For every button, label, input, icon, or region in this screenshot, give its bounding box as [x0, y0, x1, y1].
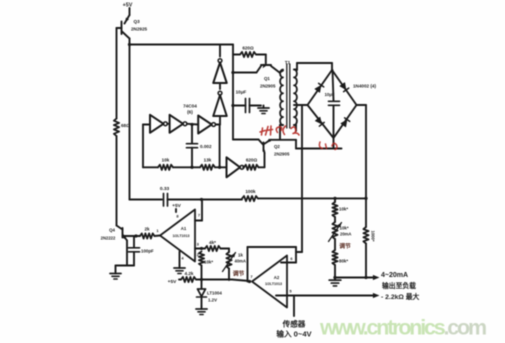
svg-text:2N2222: 2N2222	[101, 236, 116, 241]
ground A1	[174, 266, 185, 274]
label 74C04	[183, 104, 197, 115]
svg-text:2N2925: 2N2925	[131, 27, 148, 32]
label 1N4002	[353, 84, 376, 89]
label tiaojie A1 pot	[233, 270, 245, 278]
wire right rail upper	[365, 105, 367, 227]
svg-text:- 2.2kΩ 最大: - 2.2kΩ 最大	[381, 292, 420, 301]
wire T1 primary bottom	[280, 125, 283, 140]
svg-text:10μF: 10μF	[324, 92, 334, 97]
label Q1 2N2905	[260, 76, 276, 89]
svg-text:+5V: +5V	[123, 3, 133, 9]
svg-text:4: 4	[181, 256, 184, 261]
wire output row	[333, 275, 379, 280]
zener LT1004	[197, 280, 207, 307]
power +5V A1 pin8	[172, 203, 181, 219]
node oscillator cap top	[187, 123, 198, 126]
wire Q2 corner	[295, 140, 297, 149]
node collector Q3	[128, 43, 131, 46]
node Q4 base	[134, 234, 137, 237]
resistor 4k star	[202, 240, 230, 251]
svg-text:5: 5	[289, 289, 292, 294]
svg-text:1k: 1k	[238, 253, 243, 258]
label pin1	[156, 228, 159, 233]
wire inverter column to feedback row	[218, 125, 221, 169]
transistor Q1	[233, 55, 283, 73]
svg-text:0.002: 0.002	[200, 144, 212, 149]
wire bridge right vertex	[357, 104, 367, 106]
inverter chain U1C	[198, 116, 216, 134]
inverter chain U1A	[143, 115, 167, 133]
svg-text:2k: 2k	[144, 227, 150, 232]
svg-text:4k*: 4k*	[209, 240, 216, 245]
transformer T1	[280, 60, 297, 128]
ground oscillator cap	[258, 106, 269, 114]
svg-text:4~20mA: 4~20mA	[381, 272, 408, 279]
svg-text:调节: 调节	[339, 242, 351, 250]
svg-text:(6): (6)	[187, 110, 193, 115]
label LT1004 1.2V	[207, 291, 222, 303]
wire rail to Q4 collector	[116, 136, 118, 226]
capacitor 0.002	[187, 125, 212, 168]
wire A2 feedback loop	[248, 247, 297, 282]
wire top rail	[130, 44, 234, 46]
resistor 10k star upper	[332, 198, 348, 222]
resistor 1000 star	[363, 227, 375, 244]
svg-text:74C04: 74C04	[183, 104, 197, 109]
svg-text:A2: A2	[274, 275, 280, 280]
svg-text:40mA: 40mA	[235, 259, 246, 264]
resistor 10k star vertical	[199, 252, 213, 280]
capacitor 100pF	[129, 236, 155, 266]
power +5V supply label	[123, 3, 133, 16]
svg-text:输出至负载: 输出至负载	[382, 281, 416, 290]
watermark cntronics	[319, 316, 486, 340]
red handwriting near diode D3	[319, 142, 337, 150]
transistor Q2	[233, 139, 271, 168]
svg-text:20mA: 20mA	[340, 232, 351, 237]
label Q2 2N2905	[274, 144, 290, 157]
node A2 input	[248, 274, 254, 283]
svg-text:调节: 调节	[233, 270, 245, 278]
diode D4 1N4002	[341, 118, 350, 127]
op-amp A1	[160, 210, 195, 262]
svg-text:www.cntronics.com: www.cntronics.com	[319, 316, 486, 340]
wire AC rail from left vertex	[296, 105, 302, 252]
label tiaojie output pot	[339, 242, 351, 250]
wire A2 pin5 row	[276, 289, 380, 299]
label Q4 2N2222	[101, 228, 116, 241]
wire T1 secondary top riser	[294, 63, 297, 70]
resistor 4.2k	[179, 271, 196, 282]
resistor 620ohm bottom	[243, 158, 264, 170]
diode D2 1N4002	[340, 83, 349, 92]
svg-text:10μF: 10μF	[236, 90, 247, 95]
resistor 13k	[200, 158, 215, 170]
label sensor input	[276, 319, 312, 339]
svg-text:A1: A1	[181, 226, 187, 231]
svg-text:1: 1	[156, 228, 159, 233]
svg-text:Q2: Q2	[274, 144, 280, 149]
label max load	[381, 292, 420, 301]
svg-text:13k: 13k	[204, 158, 212, 163]
svg-text:Q3: Q3	[134, 19, 141, 24]
svg-text:2N2905: 2N2905	[260, 84, 276, 89]
label output load	[382, 281, 416, 290]
transistor Q3	[117, 15, 130, 39]
wire rail base Q3 down	[116, 28, 118, 119]
svg-text:620Ω: 620Ω	[246, 158, 258, 163]
svg-text:1.2V: 1.2V	[208, 298, 217, 303]
svg-text:7: 7	[250, 274, 253, 279]
wire T1 secondary mid tap	[294, 104, 308, 106]
wire bridge bottom row	[296, 138, 342, 149]
svg-text:6: 6	[290, 256, 293, 261]
wire mid rail right	[258, 197, 368, 200]
capacitor 10uF oscillator	[233, 90, 261, 113]
svg-text:1/2LT1013: 1/2LT1013	[265, 282, 282, 286]
op-amp A2	[252, 256, 287, 308]
svg-text:+5V: +5V	[168, 279, 177, 285]
svg-text:1/2LT1013: 1/2LT1013	[172, 234, 189, 238]
wire A1 inputs	[195, 242, 203, 258]
wire sensor input drop	[293, 296, 295, 317]
svg-text:2N2905: 2N2905	[274, 152, 290, 157]
svg-text:+5V: +5V	[172, 203, 181, 209]
power +5V reference	[168, 279, 177, 285]
wire reference node	[196, 278, 250, 281]
inverter U1E (vertical lower)	[213, 91, 227, 116]
resistor 10k oscillator	[158, 158, 173, 170]
transistor Q4	[117, 226, 137, 266]
resistor 2k input	[136, 227, 160, 239]
resistor 68ohm	[114, 119, 130, 137]
svg-text:10k: 10k	[162, 158, 170, 163]
svg-text:3: 3	[197, 242, 200, 247]
wire mid rail left	[130, 199, 163, 201]
wire Q2 emitter to bridge	[271, 139, 297, 141]
wire branch 620 top	[231, 45, 234, 140]
svg-text:传感器: 传感器	[282, 319, 306, 329]
capacitor 0.33	[160, 186, 170, 206]
svg-text:1N4002 (4): 1N4002 (4)	[353, 84, 376, 89]
wire mid rail center	[168, 198, 243, 201]
svg-text:100pF: 100pF	[141, 249, 154, 254]
ground LT1004	[196, 307, 207, 315]
wire T1 secondary bottom stub	[294, 125, 296, 131]
svg-text:1000*: 1000*	[371, 231, 376, 242]
diode D3 1N4002	[315, 117, 324, 126]
potentiometer 10k 20mA	[329, 221, 352, 250]
svg-text:8: 8	[176, 214, 179, 219]
node feedback junction	[173, 166, 200, 169]
svg-text:620Ω: 620Ω	[242, 46, 254, 51]
diode D1 1N4002	[315, 83, 324, 92]
wire bridge top rail	[297, 63, 332, 70]
wire bridge left vertex	[302, 104, 308, 106]
svg-text:LT1004: LT1004	[207, 291, 222, 296]
svg-text:80k*: 80k*	[339, 259, 348, 264]
svg-text:4.2k: 4.2k	[185, 271, 194, 276]
inverter U1D driver	[215, 157, 244, 177]
potentiometer 1k 40mA	[223, 249, 246, 281]
wire right rail lower	[365, 244, 367, 278]
resistor 620ohm top	[233, 46, 256, 58]
wire A1 pin7 to rail	[195, 200, 202, 221]
ground Q4	[110, 271, 121, 279]
svg-text:Q1: Q1	[264, 76, 270, 81]
ground output	[329, 278, 341, 286]
wire inverter U1E input	[217, 116, 221, 125]
wire between vertical inverters	[219, 83, 221, 89]
wire Q4 emitter ground row	[116, 266, 135, 272]
svg-text:10k*: 10k*	[340, 226, 349, 231]
svg-text:10k*: 10k*	[204, 260, 213, 265]
inverter U1F (vertical upper)	[213, 59, 227, 83]
wire feedback row	[143, 166, 158, 168]
svg-text:100k: 100k	[245, 189, 256, 194]
resistor 100k	[242, 189, 258, 201]
wire A1 pin4	[180, 252, 185, 266]
capacitor 10uF bridge	[324, 70, 339, 138]
wire oscillator feedback riser	[142, 125, 144, 168]
label Q3 2N2925	[131, 19, 148, 32]
label output current	[381, 272, 408, 279]
svg-text:7: 7	[198, 213, 201, 218]
inverter chain U1B	[167, 115, 187, 133]
red handwriting near T1	[260, 126, 299, 135]
svg-text:输入 0~4V: 输入 0~4V	[276, 329, 312, 339]
svg-text:10k*: 10k*	[339, 207, 348, 212]
wire rail collector Q3 down	[129, 39, 131, 200]
svg-text:Q4: Q4	[109, 228, 115, 233]
resistor 80k star	[332, 250, 348, 278]
wire inverter U1F output stub	[219, 45, 221, 57]
svg-text:0.33: 0.33	[160, 186, 170, 192]
bridge diamond edges	[308, 70, 357, 138]
